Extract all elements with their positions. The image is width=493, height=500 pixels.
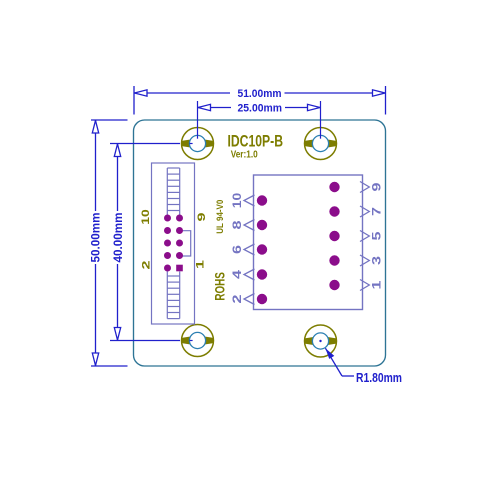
connector J1 bottom cable ladder — [167, 272, 179, 319]
connector J1 polarization notch — [182, 231, 191, 256]
U1 right pads (odd pins) — [329, 182, 339, 290]
dimension 25.00mm — [198, 104, 321, 110]
connector J1 top cable ladder — [167, 168, 179, 215]
svg-text:9: 9 — [196, 213, 208, 222]
svg-text:1: 1 — [372, 280, 384, 290]
U1 left pads (even pins) — [257, 195, 267, 304]
mounting hole H1 top-left — [181, 128, 213, 160]
center mark H4 — [319, 340, 321, 342]
svg-text:50.00mm: 50.00mm — [89, 213, 103, 263]
svg-text:10: 10 — [140, 209, 152, 225]
mounting hole H4 bottom-right — [304, 325, 336, 357]
connector J1 body — [152, 163, 195, 324]
svg-text:Ver:1.0: Ver:1.0 — [231, 149, 258, 160]
extension/crosshair lines — [110, 101, 321, 341]
svg-text:51.00mm: 51.00mm — [238, 88, 282, 100]
svg-text:2: 2 — [232, 295, 244, 304]
svg-text:IDC10P-B: IDC10P-B — [228, 132, 284, 150]
svg-text:40.00mm: 40.00mm — [111, 213, 125, 263]
svg-text:8: 8 — [232, 220, 244, 230]
dimension 40.00mm — [114, 144, 120, 341]
svg-text:7: 7 — [372, 207, 384, 216]
J1 pin 1 square pad — [176, 265, 183, 272]
svg-text:6: 6 — [232, 245, 244, 254]
svg-text:2: 2 — [141, 261, 153, 270]
U1 right pin chevrons — [360, 182, 369, 291]
svg-text:UL 94-V0: UL 94-V0 — [215, 200, 226, 234]
board outline — [134, 120, 386, 366]
svg-text:R1.80mm: R1.80mm — [356, 370, 402, 385]
svg-text:1: 1 — [195, 260, 207, 269]
radius leader R1.80mm — [325, 348, 402, 385]
dimension 51.00mm — [134, 86, 386, 115]
J1 pin pads — [164, 215, 183, 272]
dimension 50.00mm — [91, 120, 128, 366]
svg-text:3: 3 — [372, 256, 384, 265]
U1 right pin numbers — [372, 183, 384, 290]
svg-text:ROHS: ROHS — [212, 272, 227, 301]
U1 left pin chevrons — [244, 195, 255, 305]
mounting hole H2 top-right — [304, 128, 336, 160]
mounting hole H3 bottom-left — [181, 325, 213, 357]
svg-text:9: 9 — [372, 183, 384, 192]
svg-text:25.00mm: 25.00mm — [238, 103, 283, 115]
svg-text:10: 10 — [232, 193, 244, 209]
svg-text:4: 4 — [232, 269, 244, 279]
svg-text:5: 5 — [372, 231, 384, 241]
DIP footprint outline U1 — [254, 175, 363, 310]
U1 left pin numbers — [232, 193, 244, 304]
